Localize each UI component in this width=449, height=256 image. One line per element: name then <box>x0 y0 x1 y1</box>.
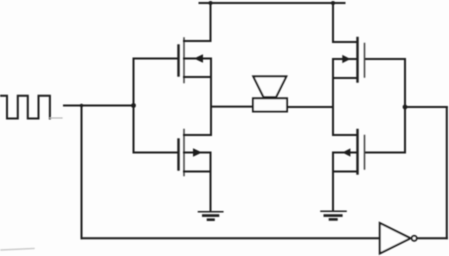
mosfet Q2 bottom-left <box>134 130 212 176</box>
wire feedback vertical <box>81 106 83 239</box>
wire left gate bus <box>133 59 135 153</box>
inverter U1 bubble <box>412 236 417 241</box>
wire gate bus to inverter output horizontal <box>405 106 447 108</box>
power rail top <box>200 2 345 4</box>
node right gate bus junction <box>403 105 408 110</box>
wire right half-bridge mid bus <box>332 59 334 135</box>
wire Q3 drain to rail <box>332 3 334 42</box>
wire right gate bus <box>404 59 406 153</box>
node left gate bus junction <box>131 103 136 108</box>
wire Q2 source to ground <box>210 172 212 211</box>
wire inverter output vertical riser <box>446 107 448 238</box>
wire feedback bottom run to inverter input <box>82 237 380 239</box>
scan artifact smudge bottom-left <box>1 249 34 251</box>
node rail right junction <box>331 1 335 5</box>
ground left <box>199 212 223 220</box>
wire Q1 drain to rail <box>210 3 212 41</box>
wire Q4 source to ground <box>332 172 334 211</box>
square wave input source <box>1 96 62 119</box>
wire inverter output <box>418 237 447 239</box>
wire Q2 body-source bus <box>210 153 212 172</box>
mosfet Q1 top-left <box>134 38 212 83</box>
wire output node right to buzzer <box>287 106 333 108</box>
wire input horizontal <box>64 105 134 107</box>
wire left half-bridge mid bus <box>210 59 212 136</box>
ground right <box>321 211 346 219</box>
node input-feedback junction <box>80 104 84 108</box>
wire Q4 body-source bus <box>332 153 334 172</box>
mosfet Q4 bottom-right <box>333 130 405 174</box>
buzzer LS1 body <box>253 98 287 111</box>
inverter U1 triangle <box>380 223 411 254</box>
buzzer LS1 horn <box>253 76 286 97</box>
node rail left junction <box>209 1 213 5</box>
wire output node left to buzzer <box>211 106 253 108</box>
mosfet Q3 top-right <box>333 38 405 82</box>
